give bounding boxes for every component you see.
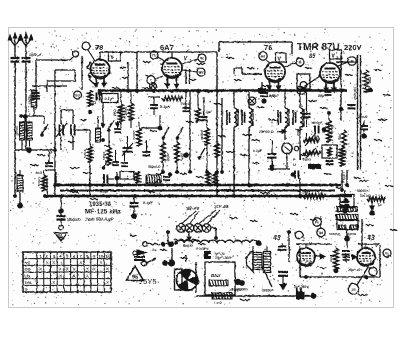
svg-text:X: X [72,273,75,278]
svg-text:X: X [59,273,62,278]
svg-text:8.5MΩ: 8.5MΩ [37,176,41,186]
svg-text:X: X [52,280,55,285]
svg-text:10000: 10000 [358,115,368,119]
svg-text:µu: µu [351,287,355,291]
svg-text:M: M [201,56,204,60]
svg-text:TRL: TRL [25,280,33,285]
svg-text:U: U [293,162,296,167]
svg-text:1/2000: 1/2000 [237,288,247,292]
svg-text:50000: 50000 [330,125,334,134]
svg-text:0.1µF: 0.1µF [160,105,170,109]
svg-text:X: X [79,260,82,265]
svg-text:X: X [106,280,109,285]
svg-text:300000Ω: 300000Ω [353,87,357,100]
svg-text:15000: 15000 [28,95,32,104]
svg-text:X: X [93,267,96,272]
svg-text:50µ: 50µ [318,94,324,98]
svg-text:25Y5: 25Y5 [139,277,157,286]
svg-text:X: X [52,260,55,265]
svg-text:400 Ω: 400 Ω [182,244,193,248]
svg-text:51000: 51000 [83,149,87,158]
svg-text:To: To [377,202,382,207]
svg-text:···: ··· [305,62,309,67]
svg-text:25000 Ω: 25000 Ω [259,130,274,134]
svg-text:1vatr.500.A.µF: 1vatr.500.A.µF [85,217,114,222]
svg-text:100000Ω: 100000Ω [67,218,81,222]
svg-text:X: X [99,260,102,265]
svg-text:MF-4/8: MF-4/8 [186,206,200,211]
svg-text:95: 95 [132,275,138,281]
svg-text:1KΩ: 1KΩ [343,151,347,158]
svg-text:X: X [106,267,109,272]
svg-text:400000: 400000 [132,130,136,140]
svg-text:M: M [300,89,303,93]
svg-text:78: 78 [95,43,103,52]
svg-text:ΞΞΞ: ΞΞΞ [329,256,333,262]
svg-text:2KΩ: 2KΩ [113,109,117,117]
svg-text:0.1µF: 0.1µF [269,94,279,98]
svg-text:1935-36: 1935-36 [89,202,112,208]
svg-text:3B: 3B [319,231,324,235]
svg-text:X: X [86,273,89,278]
svg-text:1A: 1A [152,248,157,252]
svg-text:TMR 87U: TMR 87U [297,42,340,53]
svg-text:300000: 300000 [339,212,349,216]
svg-text:0.1µF: 0.1µF [253,149,263,153]
svg-text:100000: 100000 [15,126,19,136]
svg-text:50000Ω: 50000Ω [329,232,341,236]
svg-text:Hb: Hb [199,70,204,74]
svg-text:10: 10 [99,253,104,258]
svg-text:KG: KG [25,260,31,265]
svg-text:50000: 50000 [102,151,106,160]
svg-text:500000 Ω: 500000 Ω [302,183,317,187]
svg-text:X: X [66,267,69,272]
svg-text:G: G [25,287,28,292]
svg-text:Bazr: Bazr [211,273,221,278]
svg-text:400Ω: 400Ω [124,107,128,116]
svg-text:20Y-4/8: 20Y-4/8 [213,204,229,209]
svg-text:43: 43 [272,235,281,242]
svg-text:X: X [86,267,89,272]
svg-text:0.1µF: 0.1µF [143,201,153,205]
svg-text:Vo: Vo [385,251,389,255]
svg-text:220V: 220V [344,43,362,52]
svg-text:X: X [59,267,62,272]
svg-text:1000·µF: 1000·µF [29,53,43,57]
svg-text:LG: LG [25,273,31,278]
svg-text:1 0 Ω: 1 0 Ω [214,301,222,305]
svg-text:6A7: 6A7 [160,43,174,52]
svg-text:50000·Ω: 50000·Ω [148,165,161,169]
svg-text:15µF-30: 15µF-30 [348,268,361,272]
svg-text:500000Ω: 500000Ω [357,189,371,193]
svg-text:1KΩ: 1KΩ [368,77,372,84]
svg-text:4: 4 [337,56,339,60]
svg-text:78: 78 [264,43,272,52]
svg-text:Ed: Ed [75,93,79,97]
svg-text:85: 85 [309,54,316,60]
svg-text:Ad: Ad [261,54,266,58]
svg-text:0.1µF: 0.1µF [100,190,110,194]
svg-text:Θ N M N: Θ N M N [196,247,209,251]
svg-text:0.1: 0.1 [92,101,97,105]
svg-text:300MΩ: 300MΩ [346,232,357,236]
svg-text:300000: 300000 [262,289,273,293]
svg-text:M.Ω: M.Ω [36,171,43,175]
svg-text:M: M [299,60,302,64]
svg-text:43: 43 [366,235,375,242]
svg-text:15µF-300V: 15µF-300V [215,256,233,260]
svg-text:0.1µF: 0.1µF [105,97,115,101]
svg-text:1: 1 [116,58,118,62]
svg-text:300000: 300000 [200,130,204,140]
svg-text:M: M [351,59,354,63]
svg-text:X: X [46,260,49,265]
svg-text:7V: 7V [152,53,157,57]
svg-text:5µF-250V: 5µF-250V [294,285,309,289]
svg-text:20000: 20000 [166,153,170,162]
svg-text:X: X [72,267,75,272]
svg-text:MF·125 kHz: MF·125 kHz [85,209,122,216]
svg-text:OG: OG [25,267,31,272]
svg-text:500Ω: 500Ω [303,158,312,162]
svg-text:1000µF: 1000µF [311,121,323,125]
svg-text:X: X [39,267,42,272]
